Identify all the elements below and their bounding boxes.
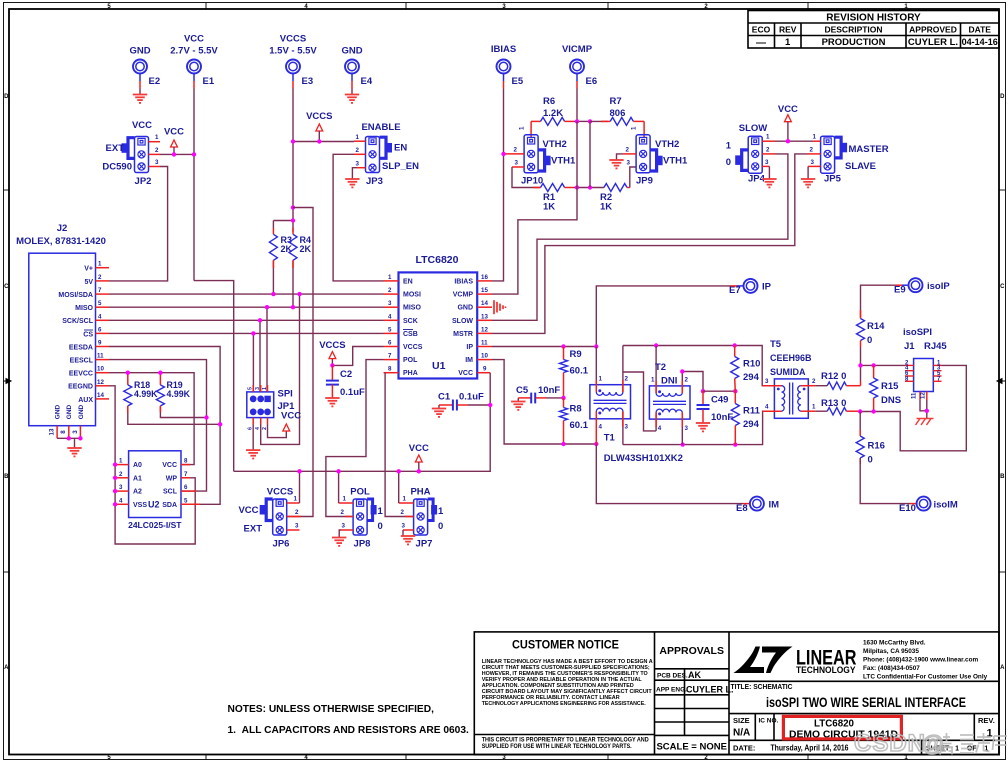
svg-text:GND: GND	[66, 404, 73, 419]
resistor R1	[533, 184, 574, 213]
wire R6 right to E6 node	[574, 120, 590, 122]
svg-text:MOLEX, 87831-1420: MOLEX, 87831-1420	[16, 236, 106, 247]
svg-text:3: 3	[627, 160, 631, 167]
wire JP2 pin3 to J2 5V	[109, 167, 168, 281]
svg-text:SCL: SCL	[163, 489, 178, 496]
wire JP4 pin1 to JP5 pin1	[775, 140, 813, 142]
svg-text:3: 3	[625, 424, 629, 431]
svg-text:GND: GND	[78, 404, 85, 419]
node dot R4-MISO	[291, 305, 295, 309]
wire NET3 T1 pin3 to T5 pin4	[623, 411, 775, 444]
node dot JP6 rail	[297, 469, 301, 473]
node dot VCCS-JP3	[317, 139, 321, 143]
svg-text:3: 3	[72, 430, 79, 434]
svg-text:VCC: VCC	[409, 443, 429, 454]
node dot JP2-VCC	[172, 152, 176, 156]
node dot R4 top branch	[291, 205, 295, 209]
svg-text:16: 16	[481, 274, 488, 281]
svg-text:APPROVALS: APPROVALS	[659, 645, 724, 657]
svg-text:10nF: 10nF	[711, 412, 733, 423]
power VCC arrow at JP4/JP5	[778, 104, 798, 141]
svg-text:8: 8	[60, 430, 67, 434]
wire MISO row	[109, 306, 384, 308]
node dot MISO drop	[265, 305, 269, 309]
svg-text:DESCRIPTION: DESCRIPTION	[824, 25, 882, 35]
svg-text:2K: 2K	[300, 244, 312, 254]
svg-text:VTH1: VTH1	[551, 156, 576, 167]
svg-text:MISO: MISO	[403, 305, 421, 312]
wire EESCL	[109, 360, 207, 492]
svg-text:1: 1	[262, 387, 268, 390]
svg-text:2: 2	[356, 147, 360, 154]
svg-text:VCC: VCC	[164, 127, 184, 138]
svg-text:CSDN: CSDN	[854, 730, 926, 757]
svg-text:D: D	[4, 94, 9, 100]
svg-text:04-14-16: 04-14-16	[962, 37, 998, 47]
svg-text:4: 4	[599, 424, 603, 431]
svg-text:E4: E4	[361, 76, 373, 87]
wire R3 top to E3	[273, 220, 293, 222]
svg-text:1: 1	[438, 506, 444, 517]
svg-text:Fax: (408)434-0507: Fax: (408)434-0507	[863, 665, 920, 672]
svg-text:ECO: ECO	[752, 25, 771, 35]
svg-text:2: 2	[401, 509, 405, 516]
node dot IM-R8	[561, 442, 565, 446]
svg-text:A2: A2	[133, 489, 142, 496]
svg-text:SCK/SCL: SCK/SCL	[62, 318, 93, 325]
node dot J1 gnd	[925, 409, 929, 413]
svg-text:2: 2	[98, 274, 102, 281]
svg-text:1.2K: 1.2K	[543, 108, 563, 119]
svg-text:2: 2	[685, 377, 689, 384]
svg-text:3: 3	[155, 159, 159, 166]
wire R1-R2 row middle	[574, 187, 604, 189]
terminal E7	[729, 279, 772, 296]
REVISION-TABLE	[748, 11, 999, 49]
svg-text:10: 10	[481, 353, 488, 360]
svg-text:0: 0	[378, 521, 383, 532]
resistor R19	[156, 373, 206, 418]
svg-text:C: C	[1000, 284, 1005, 290]
node dot vcmp drop row	[588, 185, 592, 189]
terminal E8	[736, 497, 779, 514]
resistor R6	[531, 96, 574, 125]
svg-text:GND: GND	[55, 404, 62, 419]
wire E5 IBIAS down to U1 pin16	[492, 89, 504, 281]
svg-text:JP7: JP7	[416, 539, 433, 550]
svg-text:2.7V - 5.5V: 2.7V - 5.5V	[170, 46, 218, 57]
svg-text:1: 1	[812, 404, 816, 411]
resistor R11	[731, 391, 760, 444]
svg-text:15: 15	[481, 287, 488, 294]
svg-text:JP9: JP9	[636, 176, 653, 187]
node dot NET3-R11	[733, 442, 737, 446]
svg-text:1: 1	[98, 261, 102, 268]
svg-text:SUMIDA: SUMIDA	[770, 367, 806, 377]
svg-text:R9: R9	[570, 349, 582, 360]
svg-text:5V: 5V	[84, 279, 93, 286]
svg-text:E10: E10	[899, 503, 916, 514]
wire R12 up to isoIP row	[860, 365, 862, 381]
svg-text:294: 294	[743, 372, 760, 383]
transformer T1	[590, 346, 683, 465]
svg-text:R12 0: R12 0	[821, 371, 846, 382]
terminal E10	[899, 497, 958, 514]
svg-text:C5: C5	[516, 385, 529, 396]
svg-text:4.99K: 4.99K	[167, 389, 191, 399]
svg-text:1K: 1K	[600, 202, 612, 213]
node dot isoIP-R14	[858, 363, 862, 367]
wire VCCS branch to JP6 pin2	[287, 208, 313, 517]
svg-text:E1: E1	[203, 76, 215, 87]
wire U1 pin9 VCC down to rail	[234, 373, 491, 472]
svg-text:1: 1	[294, 496, 298, 503]
LT logo	[734, 647, 857, 675]
node dot rail-vcc arrow	[417, 469, 421, 473]
svg-text:U2: U2	[148, 500, 160, 510]
IC U1 LTC6820	[384, 254, 493, 379]
ground at C1	[432, 409, 446, 417]
svg-text:CSB: CSB	[403, 331, 418, 338]
svg-text:MOSI/SDA: MOSI/SDA	[58, 292, 93, 299]
wire E9 to R14	[902, 284, 909, 286]
svg-text:EN: EN	[403, 278, 413, 285]
node dot C49 top	[701, 389, 705, 393]
svg-text:EXT: EXT	[106, 143, 125, 154]
svg-text:DATE: DATE	[968, 25, 991, 35]
svg-text:14: 14	[481, 300, 488, 307]
svg-text:VTH1: VTH1	[663, 156, 688, 167]
node dot J2 gnd b	[78, 436, 82, 440]
wire E1 VCC down	[193, 89, 195, 281]
svg-text:2: 2	[625, 376, 629, 383]
node dot J2 gnd a	[67, 436, 71, 440]
wire U1 pin8 PHA to JP7	[385, 373, 414, 517]
svg-text:9: 9	[98, 340, 102, 347]
svg-text:SPI: SPI	[278, 389, 293, 400]
svg-text:1: 1	[631, 126, 638, 130]
IC U2 24LC025	[115, 451, 200, 530]
svg-text:VCC: VCC	[281, 411, 301, 422]
svg-text:14: 14	[97, 392, 104, 399]
svg-text:3: 3	[402, 523, 406, 530]
svg-text:1K: 1K	[543, 202, 555, 213]
svg-text:JP2: JP2	[135, 176, 152, 187]
resistor R13	[815, 398, 860, 415]
svg-text:7: 7	[98, 287, 102, 294]
terminal E2	[129, 46, 160, 95]
svg-text:IBIAS: IBIAS	[454, 278, 473, 285]
svg-text:1: 1	[403, 496, 407, 503]
wire JP4 pin3 to ground	[768, 166, 770, 179]
svg-text:SDA: SDA	[162, 502, 177, 509]
svg-text:6: 6	[388, 340, 392, 347]
ground at E4	[345, 95, 359, 103]
svg-text:DATE:: DATE:	[733, 744, 755, 753]
svg-text:5: 5	[388, 326, 392, 333]
svg-text:TECHNOLOGY APPLICATIONS ENGINE: TECHNOLOGY APPLICATIONS ENGINEERING FOR …	[482, 701, 646, 707]
svg-text:V+: V+	[84, 266, 93, 273]
svg-text:R16: R16	[868, 441, 885, 452]
svg-text:R10: R10	[743, 359, 760, 370]
resistor R18	[124, 373, 220, 425]
terminal E9	[894, 278, 950, 295]
svg-text:IBIAS: IBIAS	[491, 44, 516, 55]
svg-text:R8: R8	[570, 404, 582, 415]
ground at C49	[696, 423, 710, 431]
svg-text:10nF: 10nF	[538, 385, 560, 396]
ground at JP7	[401, 536, 415, 544]
svg-text:7: 7	[388, 353, 392, 360]
capacitor C5	[516, 385, 564, 403]
svg-text:1630 McCarthy Blvd.: 1630 McCarthy Blvd.	[863, 640, 926, 647]
svg-text:J1: J1	[904, 341, 915, 352]
svg-text:NOTES: UNLESS OTHERWISE SPECIF: NOTES: UNLESS OTHERWISE SPECIFIED,	[228, 704, 435, 715]
power VCC arrow at JP1	[283, 424, 290, 431]
svg-text:3: 3	[356, 161, 360, 168]
svg-text:T1: T1	[604, 433, 616, 444]
svg-text:TITLE: SCHEMATIC: TITLE: SCHEMATIC	[731, 682, 794, 691]
wire JP7 pin1 to rail	[398, 471, 400, 503]
svg-text:REV.: REV.	[978, 716, 995, 725]
svg-text:12: 12	[921, 392, 927, 399]
svg-text:isoSPI: isoSPI	[903, 327, 932, 338]
svg-text:2: 2	[295, 509, 299, 516]
svg-text:Thursday, April 14, 2016: Thursday, April 14, 2016	[771, 743, 849, 753]
transformer T5	[763, 339, 816, 418]
svg-text:GND: GND	[341, 46, 362, 57]
wire JP8 pin3 to ground	[339, 530, 341, 538]
wire E7 to IP net	[596, 286, 730, 347]
wire JP1 pin2 to VCC arrow	[268, 425, 287, 438]
terminal E4	[341, 46, 372, 95]
wire JP3 pin1 row to E3	[293, 141, 354, 143]
resistor R7	[590, 96, 644, 125]
node dot R10-R11 mid	[733, 389, 737, 393]
svg-text:7: 7	[184, 471, 188, 478]
node dot E6-R6R7	[575, 119, 579, 123]
svg-text:SLAVE: SLAVE	[845, 161, 876, 172]
jumper JP2	[102, 120, 160, 187]
ground at J2	[67, 448, 81, 456]
svg-text:60.1: 60.1	[570, 366, 589, 377]
svg-text:DLW43SH101XK2: DLW43SH101XK2	[604, 453, 683, 464]
svg-text:U1: U1	[432, 360, 446, 372]
node dot T2 pin2	[680, 369, 684, 373]
capacitor C2	[319, 340, 383, 398]
wire R2 right to JP9 pin3	[630, 167, 636, 188]
svg-text:isoSPI TWO WIRE SERIAL INTERFA: isoSPI TWO WIRE SERIAL INTERFACE	[766, 695, 966, 710]
svg-text:E3: E3	[302, 76, 314, 87]
svg-text:2: 2	[119, 471, 123, 478]
svg-text:T2: T2	[655, 362, 666, 373]
node dot IP-T1	[594, 344, 598, 348]
svg-text:3: 3	[685, 425, 689, 432]
svg-text:VCC: VCC	[162, 462, 177, 469]
capacitor C1	[438, 392, 490, 411]
jumper JP10	[504, 126, 576, 187]
ground at C5	[511, 402, 525, 410]
svg-text:4: 4	[658, 425, 662, 432]
svg-text:JP5: JP5	[824, 174, 842, 185]
svg-text:11: 11	[912, 392, 918, 399]
svg-text:VCCS: VCCS	[306, 111, 332, 122]
svg-text:VCCS: VCCS	[403, 344, 423, 351]
svg-text:6: 6	[98, 326, 102, 333]
svg-text:EESDA: EESDA	[69, 344, 93, 351]
node dot R19 top	[158, 371, 162, 375]
wire EEVCC	[109, 373, 194, 465]
wire JP7 pin3 to ground	[402, 530, 404, 536]
jumper JP9	[623, 126, 688, 187]
wire C49 row to R10/R11	[703, 390, 735, 392]
svg-text:R6: R6	[543, 96, 555, 107]
svg-text:A: A	[4, 665, 9, 671]
svg-text:CEEH96B: CEEH96B	[770, 353, 812, 363]
node dot VCC jumper row	[786, 139, 790, 143]
jumper JP3	[354, 122, 419, 187]
svg-text:3: 3	[295, 523, 299, 530]
svg-text:PCB DES.: PCB DES.	[657, 673, 688, 680]
svg-text:24LC025-I/ST: 24LC025-I/ST	[128, 520, 182, 530]
svg-text:0: 0	[438, 521, 443, 532]
svg-text:E5: E5	[512, 76, 524, 87]
svg-text:APPROVED: APPROVED	[909, 25, 957, 35]
gnd arrow at U1 pin14	[494, 300, 506, 314]
svg-text:0: 0	[868, 455, 873, 466]
connector J1 RJ45	[903, 327, 947, 400]
wire VCC from E1 to rail	[194, 281, 234, 472]
svg-text:VCC: VCC	[184, 34, 204, 45]
wire SCK drop to JP1 pin3	[259, 320, 261, 392]
node dot IP-R9	[561, 344, 565, 348]
wire MSTR net JP5 pin2 to U1 pin12	[492, 154, 807, 334]
svg-text:VCCS: VCCS	[267, 487, 293, 498]
svg-text:PHA: PHA	[403, 370, 418, 377]
svg-text:3: 3	[388, 300, 392, 307]
svg-text:4.99K: 4.99K	[134, 389, 158, 399]
svg-text:R14: R14	[867, 321, 885, 332]
node dot vicmp row	[575, 185, 579, 189]
node dot JP2-E1	[192, 152, 196, 156]
jumper JP7	[399, 487, 444, 550]
svg-text:0.1uF: 0.1uF	[459, 392, 484, 403]
svg-text:3: 3	[515, 160, 519, 167]
svg-text:SUPPLIED FOR USE WITH LINEAR T: SUPPLIED FOR USE WITH LINEAR TECHNOLOGY …	[482, 743, 632, 750]
svg-text:isoIM: isoIM	[934, 500, 958, 511]
svg-text:3: 3	[342, 523, 346, 530]
svg-text:LTC Confidential-For Customer: LTC Confidential-For Customer Use Only	[863, 674, 988, 681]
svg-text:Milpitas, CA 95035: Milpitas, CA 95035	[863, 648, 919, 655]
wire MISO drop to JP1 pin1	[266, 307, 268, 392]
ground at JP8	[332, 538, 346, 546]
red highlight box	[783, 716, 901, 739]
node dot MOSI drop	[297, 292, 301, 296]
svg-text:R7: R7	[610, 96, 622, 107]
wire SLOW net JP4 pin2 to U1 pin13	[492, 154, 788, 320]
svg-text:VICMP: VICMP	[562, 44, 593, 55]
svg-text:VCC: VCC	[132, 120, 152, 131]
wire SCK row	[109, 319, 384, 321]
wire IM from U1 pin10	[492, 360, 596, 444]
node dot JP7 rail	[397, 469, 401, 473]
svg-text:CUYLER L.: CUYLER L.	[908, 37, 958, 48]
svg-text:4: 4	[119, 497, 123, 504]
svg-text:11: 11	[481, 340, 488, 347]
jumper JP6	[238, 487, 301, 550]
svg-text:E6: E6	[586, 76, 598, 87]
svg-text:CUYLER L.: CUYLER L.	[686, 685, 734, 695]
wire U1 pin7 POL to JP8	[326, 360, 384, 517]
node dot NET2-R10	[733, 343, 737, 347]
svg-text:294: 294	[743, 419, 760, 430]
svg-text:4: 4	[255, 427, 261, 430]
svg-text:6: 6	[184, 484, 188, 491]
resistor R3	[269, 221, 292, 295]
svg-text:VCCS: VCCS	[280, 34, 306, 45]
transformer T2	[649, 346, 690, 445]
svg-text:A: A	[1000, 665, 1005, 671]
wire isoIP row	[861, 364, 906, 366]
svg-text:VTH2: VTH2	[655, 139, 679, 150]
svg-text:CS: CS	[83, 331, 93, 338]
svg-text:5: 5	[98, 300, 102, 307]
svg-text:2: 2	[341, 509, 345, 516]
svg-text:2K: 2K	[281, 244, 293, 254]
svg-text:1: 1	[785, 37, 791, 48]
svg-text:J2: J2	[57, 223, 68, 234]
svg-text:POL: POL	[403, 357, 418, 364]
svg-text:13: 13	[49, 428, 56, 435]
svg-text:1: 1	[813, 134, 817, 141]
svg-text:VCC: VCC	[778, 104, 798, 115]
svg-text:C1: C1	[438, 392, 451, 403]
power VCCS arrow at JP3	[306, 111, 332, 142]
wire JP1 pin6 to ground	[252, 425, 254, 451]
wire JP3 pin2 EN down to U1 pin1	[333, 154, 383, 281]
wire JP6 pin1 to rail	[299, 471, 301, 503]
wire E6 VICMP down	[576, 89, 578, 122]
wire JP3 pin3 to ground	[352, 168, 357, 179]
svg-text:MASTER: MASTER	[849, 144, 889, 155]
node dot SCK drop	[258, 318, 262, 322]
jumper JP8	[339, 487, 384, 550]
svg-text:VCC: VCC	[238, 505, 258, 516]
svg-text:12: 12	[97, 379, 104, 386]
connector J2	[16, 223, 109, 438]
svg-text:C49: C49	[711, 395, 728, 406]
svg-text:VCCS: VCCS	[319, 340, 345, 351]
svg-text:4: 4	[98, 313, 102, 320]
watermark CSDN	[854, 730, 1007, 757]
node dot isoIM-R15	[871, 409, 875, 413]
wire IM to E8	[596, 444, 743, 504]
resistor R4	[289, 228, 312, 308]
svg-text:GND: GND	[457, 305, 473, 312]
wire R7 right riser to JP9 pin1	[643, 121, 645, 137]
resistor R12	[815, 371, 860, 389]
wire J2 bottom gnd join	[57, 438, 80, 448]
node dot R19 bottom EESCL	[204, 415, 208, 419]
svg-text:GND: GND	[129, 46, 150, 57]
svg-text:2: 2	[766, 146, 770, 153]
resistor R10	[731, 346, 761, 392]
svg-text:3: 3	[255, 387, 261, 390]
svg-text:SLP_EN: SLP_EN	[382, 161, 419, 172]
svg-text:1: 1	[651, 377, 655, 384]
svg-text:0: 0	[867, 335, 872, 346]
resistor R14	[857, 310, 886, 365]
